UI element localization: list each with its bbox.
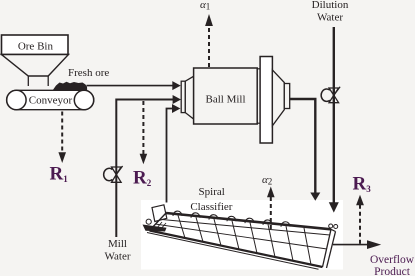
classifier panel (141, 200, 343, 270)
conveyor right roller (74, 90, 93, 109)
svg-text:Fresh ore: Fresh ore (68, 67, 109, 79)
classifier drive motor (152, 205, 167, 222)
ore bin hopper (2, 55, 69, 87)
sample arrow alpha2 (267, 187, 275, 233)
sample arrow R3 (356, 195, 364, 245)
svg-text:Water: Water (105, 251, 131, 263)
sample arrow R1 (58, 112, 66, 164)
dilution water pipe (329, 27, 339, 213)
sands return pipe (167, 104, 181, 203)
ball mill feed trunnion (181, 81, 185, 112)
svg-text:Mill: Mill (108, 238, 127, 250)
conveyor left roller (7, 90, 26, 109)
trough ribs (178, 215, 311, 264)
svg-text:Classifier: Classifier (190, 201, 232, 213)
conveyor belt (7, 90, 94, 109)
trough bottom skid (147, 233, 319, 270)
ore bin (2, 35, 69, 55)
trough front top edge (162, 220, 330, 236)
svg-text:Spiral: Spiral (199, 186, 225, 198)
fresh ore feed arrow (87, 81, 181, 90)
trough mid line (155, 224, 327, 249)
mill discharge screen (260, 57, 272, 144)
overflow product label (370, 254, 415, 276)
svg-text:α1: α1 (200, 0, 210, 12)
sample arrow alpha1 (205, 14, 213, 67)
svg-text:Ore Bin: Ore Bin (18, 41, 54, 53)
mill water label (105, 238, 131, 263)
svg-text:Dilution: Dilution (312, 0, 349, 11)
overflow product arrow (333, 240, 381, 249)
fresh ore pile (53, 82, 88, 91)
mill discharge pipe (290, 99, 321, 201)
sample arrow R2 (140, 101, 148, 164)
svg-text:Product: Product (374, 266, 411, 276)
classifier left end hatch (152, 221, 166, 230)
discharge trunnion (284, 84, 289, 109)
trough bottom rail (150, 231, 323, 268)
classifier right end cap (323, 229, 336, 268)
classifier trough top rail (166, 213, 331, 229)
spiral flights (173, 211, 290, 227)
svg-text:Ball Mill: Ball Mill (205, 94, 245, 106)
classifier left end cap (150, 213, 167, 231)
discharge cone (272, 70, 284, 126)
classifier motor pulley (146, 219, 151, 224)
svg-text:Overflow: Overflow (370, 254, 415, 266)
classifier base shadow (143, 225, 167, 232)
svg-text:α2: α2 (262, 174, 272, 187)
dilution water label (312, 0, 349, 23)
mill water pipe (116, 95, 181, 237)
classifier pulleys (329, 224, 338, 229)
ball mill feed cone (185, 76, 193, 119)
svg-text:Water: Water (317, 12, 343, 24)
mill water valve (104, 166, 123, 182)
spiral classifier label (190, 186, 232, 213)
dilution control valve (321, 87, 340, 103)
ball mill body (194, 68, 261, 124)
svg-text:Conveyor: Conveyor (29, 95, 73, 107)
